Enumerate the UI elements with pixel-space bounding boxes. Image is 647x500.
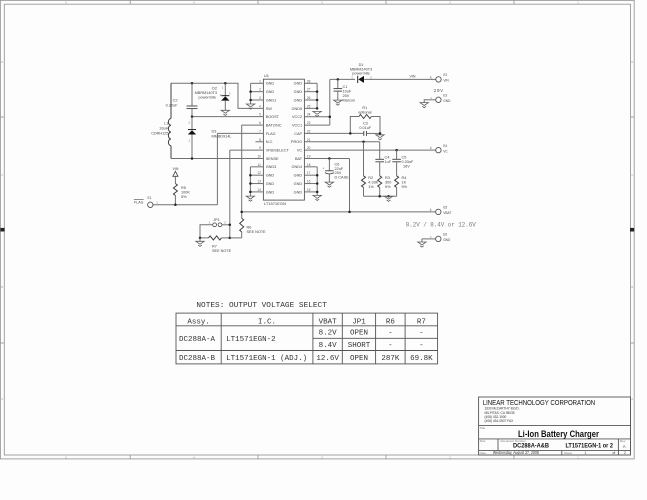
svg-text:33uH: 33uH [159,126,168,130]
wire VC net (pin 20 to E4) [304,146,435,152]
svg-text:GND3: GND3 [266,165,277,169]
svg-text:D CASE: D CASE [335,176,350,180]
svg-text:R7: R7 [212,244,217,248]
svg-text:E4: E4 [443,144,447,148]
svg-text:GND: GND [294,98,303,102]
svg-text:17: 17 [307,171,311,175]
svg-text:0.22uF: 0.22uF [166,103,179,107]
svg-text:D3: D3 [212,129,217,133]
svg-text:8.2V: 8.2V [319,330,338,338]
wire BAT2 net (pin 6 down to VBAT rail) [242,125,264,212]
svg-text:VC: VC [443,149,448,153]
svg-text:5%: 5% [402,185,408,189]
wire BAT net (pin 19 down to VBAT rail) [304,158,349,211]
connector E1 FLAG [148,196,159,208]
connector E2 VIN [430,73,449,82]
capacitor C1 10uF 25V Marcon [334,78,356,102]
svg-text:optional: optional [358,110,371,114]
svg-text:LT1571EGN-1 (ADJ.): LT1571EGN-1 (ADJ.) [226,355,307,363]
ground at pins 25-28 bus [313,111,321,114]
ground below D2 [221,110,229,113]
svg-text:12.6V: 12.6V [316,355,339,363]
wire GND bus pins 1-3 [249,83,263,104]
svg-text:5: 5 [259,113,261,117]
junction R5/E1 wire [174,204,177,207]
svg-text:E2: E2 [443,73,447,77]
svg-text:26: 26 [307,96,311,100]
svg-text:MMBD914L: MMBD914L [212,134,232,138]
ground at pins 11-14 bus [246,196,254,199]
svg-text:100K: 100K [181,190,190,194]
resistor R2 4.93K 1% [362,142,379,197]
table output voltage select [176,313,438,364]
svg-text:GND: GND [266,82,275,86]
svg-text:1uF: 1uF [385,160,392,164]
svg-text:VBAT: VBAT [443,211,451,215]
svg-text:GND: GND [266,190,275,194]
svg-text:FLAG: FLAG [134,201,144,205]
ground below C6 [325,182,333,185]
svg-text:21: 21 [307,138,311,142]
wire SW node loop (pin 4 to L1 top) [171,83,263,108]
svg-text:VCC1: VCC1 [292,123,302,127]
resistor R1 optional / capacitor C3 0.01uF loop [350,106,380,133]
connector E6 GND [422,239,436,242]
svg-text:6: 6 [259,121,261,125]
svg-text:JP1: JP1 [213,218,220,222]
svg-text:JP1: JP1 [352,318,366,326]
svg-text:Rev: Rev [620,439,626,443]
svg-text:E6: E6 [443,233,447,237]
svg-text:E1: E1 [148,196,152,200]
svg-text:R2: R2 [368,176,373,180]
svg-text:27: 27 [307,88,311,92]
wire PROG net (pin 21) [304,141,379,144]
svg-text:28: 28 [307,79,311,83]
svg-text:24: 24 [307,113,311,117]
svg-text:R6: R6 [386,318,395,326]
svg-text:C5: C5 [402,156,407,160]
svg-text:VC: VC [297,149,303,153]
svg-text:OPEN: OPEN [350,355,368,363]
wire FLAG net (pin 7 to E1) [153,133,263,204]
svg-text:CDRH125: CDRH125 [151,131,168,135]
wire BOOST net (pin 5 to C2/D3 junction) [191,115,264,118]
svg-text:N.C.: N.C. [266,140,274,144]
svg-text:69.8K: 69.8K [410,355,433,363]
svg-text:GND: GND [266,174,275,178]
inductor L1 33uH CDRH125 [151,83,171,158]
svg-text:Sheet: Sheet [564,451,572,455]
svg-text:LT1571EGN-2: LT1571EGN-2 [226,336,276,344]
svg-text:-: - [419,342,423,350]
svg-text:LT1571EGN-1 or 2: LT1571EGN-1 or 2 [565,443,613,450]
svg-text:20V: 20V [434,88,444,94]
svg-text:10uF: 10uF [343,89,352,93]
connector E6 GND [430,233,451,242]
ground at JP1/R7 [196,238,204,247]
svg-text:D2: D2 [212,87,217,91]
svg-text:8.4V: 8.4V [319,342,338,350]
svg-text:A: A [631,397,633,401]
svg-text:16: 16 [307,180,311,184]
svg-text:13: 13 [257,180,261,184]
svg-text:VIN: VIN [173,167,179,171]
svg-text:A: A [623,444,626,449]
svg-text:BAT2/NC: BAT2/NC [266,123,282,127]
svg-text:23: 23 [307,121,311,125]
svg-text:I.C.: I.C. [258,318,276,326]
connector E5 VBAT [430,206,451,215]
svg-text:15: 15 [307,188,311,192]
svg-text:MBRM140T3: MBRM140T3 [195,91,217,95]
svg-text:Li-Ion Battery Charger: Li-Ion Battery Charger [518,429,599,439]
wire GND bus pins 11-14 [249,167,263,196]
svg-text:FLAG: FLAG [266,132,276,136]
svg-text:0.01uF: 0.01uF [359,126,372,130]
svg-text:9: 9 [259,146,261,150]
svg-text:LT1571EGN: LT1571EGN [264,201,286,206]
svg-text:A: A [1,397,3,401]
ground at CAP/C3 node [376,135,384,138]
jumper JP1 [200,218,231,238]
svg-text:VBAT: VBAT [319,318,338,326]
svg-text:5%: 5% [181,195,187,199]
svg-text:GND: GND [294,82,303,86]
svg-text:1K: 1K [402,181,407,185]
svg-text:Assy.: Assy. [187,318,210,326]
svg-text:SENSE: SENSE [266,157,279,161]
wire GND bus pins 25-28 [304,83,318,109]
svg-text:2: 2 [624,451,626,455]
wire VCC2/VCC1 to VIN node [304,79,331,125]
capacitor C5 0.33uF 16V [392,150,414,176]
svg-text:GND4: GND4 [292,165,303,169]
svg-text:powermite: powermite [352,72,370,76]
resistor R3 300 5% [378,176,392,197]
svg-text:+: + [322,166,324,170]
svg-text:DC288A-B: DC288A-B [179,355,216,363]
resistor R5 100K 5% [173,184,190,205]
svg-text:2: 2 [259,88,261,92]
svg-text:SW: SW [266,107,273,111]
svg-text:300: 300 [385,181,391,185]
svg-text:R4: R4 [402,176,407,180]
svg-text:GND: GND [443,99,451,103]
svg-text:BOOST: BOOST [266,115,280,119]
svg-text:-: - [419,330,423,338]
svg-text:1: 1 [585,451,587,455]
svg-text:Wednesday, August 27, 2008: Wednesday, August 27, 2008 [493,450,540,455]
svg-text:LINEAR TECHNOLOGY CORPORATION: LINEAR TECHNOLOGY CORPORATION [483,398,596,407]
svg-text:R7: R7 [417,318,426,326]
svg-text:D: D [631,60,633,64]
svg-text:10: 10 [257,154,261,158]
svg-text:4: 4 [259,104,261,108]
svg-text:E3: E3 [443,94,447,98]
capacitor C6 22uF 25V D CASE (polarized) [322,157,349,182]
svg-text:1: 1 [259,79,261,83]
svg-text:OPEN: OPEN [350,330,368,338]
svg-text:CAP: CAP [294,132,302,136]
svg-text:BAT: BAT [295,157,303,161]
svg-text:R5: R5 [181,186,186,190]
svg-text:3: 3 [259,96,261,100]
svg-text:20: 20 [307,146,311,150]
svg-text:VIN: VIN [443,79,449,83]
node FLAG label [134,199,144,204]
ground at E6 [418,242,426,245]
svg-text:D1: D1 [359,63,364,67]
svg-text:U1: U1 [264,73,270,78]
resistor R7 SEE NOTE [199,236,232,253]
svg-text:GND: GND [294,190,303,194]
connector E3 GND [424,100,436,103]
svg-text:B: B [631,285,633,289]
capacitor C2 0.22uF [166,82,198,117]
svg-text:11: 11 [258,163,262,167]
ground below C1 [334,100,342,103]
svg-text:DC288A-A&B: DC288A-A&B [513,443,549,450]
svg-text:25: 25 [307,104,311,108]
svg-text:GND: GND [294,174,303,178]
connector E3 GND [430,94,451,103]
svg-text:Size: Size [480,439,486,443]
svg-text:D: D [1,60,3,64]
svg-text:B: B [1,285,3,289]
IC U1 LT1571EGN [257,73,310,206]
svg-text:(408) 434-0507 FAX: (408) 434-0507 FAX [485,419,515,423]
wire VIN rail (VCC corner to E2) [330,78,436,80]
svg-text:L1: L1 [164,121,168,125]
svg-text:0.33uF: 0.33uF [402,160,415,164]
svg-text:VCC2: VCC2 [292,115,302,119]
svg-text:12: 12 [257,171,261,175]
svg-text:7: 7 [259,129,261,133]
svg-text:GND1: GND1 [266,98,277,102]
ground at compensation rail [384,196,392,199]
svg-text:of: of [613,451,616,455]
svg-text:DC288A-A: DC288A-A [179,336,216,344]
svg-text:powermite: powermite [198,96,216,100]
svg-text:VIN: VIN [410,75,416,79]
svg-text:16V: 16V [403,165,410,169]
svg-text:PROG: PROG [291,140,302,144]
svg-text:C: C [631,173,633,177]
svg-text:GND: GND [266,90,275,94]
svg-text:-: - [388,342,392,350]
svg-text:8.2V / 8.4V or 12.6V: 8.2V / 8.4V or 12.6V [406,222,476,229]
wire CAP net (pin 22) with capacitor C3 in series [304,131,381,136]
pin 8 N.C. stub [255,141,263,143]
diode D1 MBRM140T3 powermite [350,63,372,83]
svg-text:GND: GND [443,238,451,242]
wire VFB/SELECT net (pin 9 down to JP1/R7) [230,150,264,238]
svg-text:VFB/SELECT: VFB/SELECT [266,149,290,153]
svg-text:Marcon: Marcon [343,98,356,102]
svg-text:5%: 5% [385,185,391,189]
svg-text:R6: R6 [247,226,252,230]
svg-text:SEE NOTE: SEE NOTE [247,230,267,234]
svg-text:GND5: GND5 [292,107,303,111]
ground at pins 1-3 bus [246,104,254,107]
svg-text:C3: C3 [363,121,368,125]
svg-text:-: - [388,330,392,338]
ground at pins 15-18 bus [313,195,321,198]
svg-text:1%: 1% [368,185,374,189]
resistor R6 SEE NOTE [230,212,266,238]
svg-text:287K: 287K [381,355,400,363]
svg-text:NOTES: OUTPUT VOLTAGE SELECT: NOTES: OUTPUT VOLTAGE SELECT [196,302,327,310]
svg-text:Date:: Date: [480,451,487,455]
wire VBAT rail (R6/BAT2 to E5) [240,207,435,213]
svg-text:GND: GND [266,182,275,186]
svg-text:4.93K: 4.93K [368,181,378,185]
resistor R4 1K 5% [395,176,408,197]
svg-text:18: 18 [307,163,311,167]
svg-text:Title: Title [480,426,486,430]
svg-text:22: 22 [307,129,311,133]
svg-text:SHORT: SHORT [348,342,371,350]
svg-text:14: 14 [257,188,261,192]
svg-text:C2: C2 [173,99,178,103]
wire compensation bottom rail [364,195,397,198]
wire SENSE net (pin 10 to L1 bottom) [171,157,263,160]
svg-text:GND: GND [294,90,303,94]
connector E4 VC [430,144,448,153]
capacitor C4 1uF [375,142,391,176]
svg-text:R3: R3 [385,176,390,180]
svg-text:E5: E5 [443,206,447,210]
svg-text:C1: C1 [343,85,348,89]
wire GND bus pins 15-18 [304,167,318,196]
diode D3 MMBD914L [188,117,232,159]
ground at E3 [420,103,428,106]
svg-text:19: 19 [307,154,311,158]
svg-text:C4: C4 [385,156,390,160]
power symbol VIN (arrow) [173,167,179,184]
svg-text:8: 8 [259,138,261,142]
svg-text:SEE NOTE: SEE NOTE [212,249,232,253]
title block [479,397,631,455]
diode D2 MBRM140T3 powermite [195,82,231,110]
svg-text:GND: GND [294,182,303,186]
svg-text:C: C [1,173,3,177]
svg-text:25V: 25V [343,94,350,98]
svg-text:R1: R1 [362,106,367,110]
